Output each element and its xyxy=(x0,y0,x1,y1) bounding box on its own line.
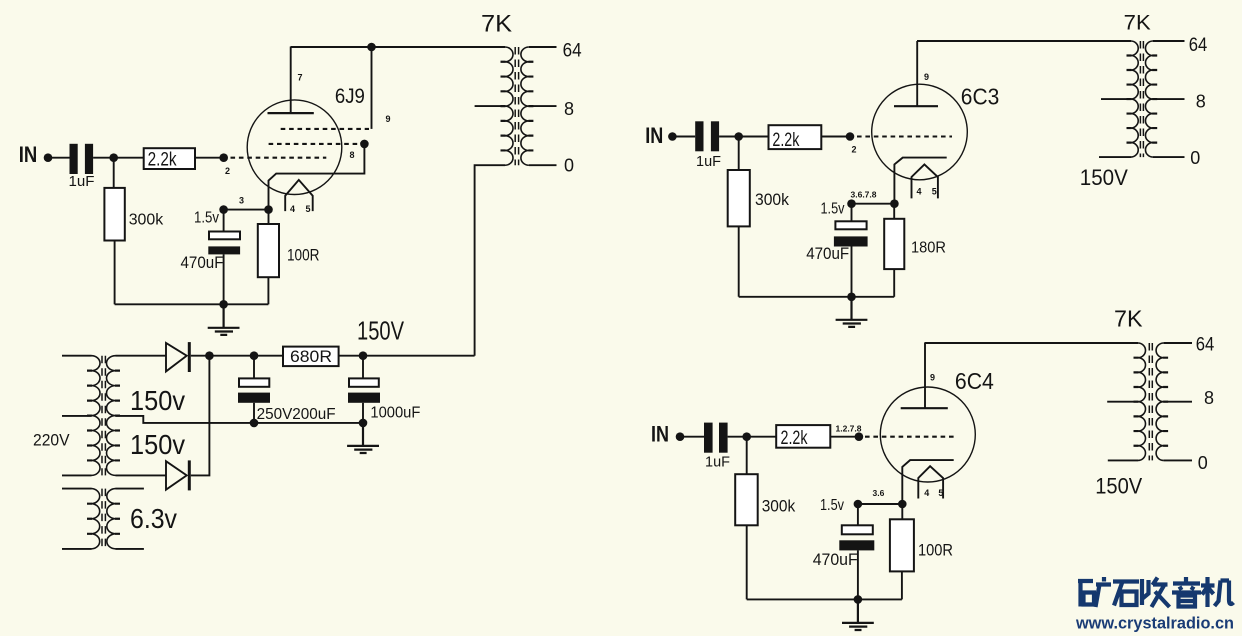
svg-text:IN: IN xyxy=(645,123,663,148)
resistor 100R (C) xyxy=(890,519,914,571)
wire bottom rail A xyxy=(115,303,269,305)
wire top xyxy=(291,46,505,48)
wire tap 8 xyxy=(529,105,557,107)
svg-text:9: 9 xyxy=(924,72,929,82)
wire xyxy=(901,504,903,519)
node gnd1 xyxy=(250,419,259,428)
wire tap 0 xyxy=(529,164,557,166)
wire dashed grid (B) xyxy=(857,135,952,137)
wire grid3 dashed xyxy=(281,128,369,130)
wire plate lead xyxy=(916,41,918,106)
wire tap 64 (T2) xyxy=(1153,40,1185,42)
capacitor 250V200uF xyxy=(239,378,269,386)
svg-text:7: 7 xyxy=(298,73,303,83)
tube 6C3 envelope xyxy=(872,84,968,180)
wire dashed grid1 xyxy=(231,157,327,159)
wire T2 primary bottom xyxy=(1099,156,1131,158)
tube 6J9 envelope xyxy=(247,100,342,195)
node B-gnd xyxy=(847,293,856,302)
wire xyxy=(893,204,895,219)
wire cap2 top lead xyxy=(362,356,364,379)
resistor 300k (C) xyxy=(735,474,758,525)
svg-text:IN: IN xyxy=(19,142,38,167)
svg-text:7K: 7K xyxy=(1114,306,1143,332)
watermark logo shou xyxy=(1142,578,1170,608)
svg-text:2.2k: 2.2k xyxy=(781,428,808,449)
wire T1 primary bottom to B+ xyxy=(475,165,505,356)
node C-in xyxy=(676,432,685,441)
svg-text:680R: 680R xyxy=(290,347,332,366)
svg-text:2.2k: 2.2k xyxy=(148,150,177,171)
wire cap lead xyxy=(223,210,225,232)
diode D2 cathode bar xyxy=(188,460,191,490)
wire secondary top xyxy=(116,355,167,357)
transformer T2 secondary winding xyxy=(1145,41,1152,157)
svg-text:IN: IN xyxy=(651,422,669,447)
node A-in xyxy=(44,153,53,162)
svg-text:0: 0 xyxy=(1190,148,1200,168)
wire cap2 bottom lead xyxy=(362,403,364,423)
capacitor C 1uF (B) xyxy=(695,121,703,151)
wire xyxy=(830,436,855,438)
node C1 xyxy=(742,432,751,441)
6.3v winding core xyxy=(102,489,105,549)
svg-text:8: 8 xyxy=(1204,388,1214,408)
svg-text:5: 5 xyxy=(932,187,937,197)
svg-text:2: 2 xyxy=(225,166,230,176)
svg-text:100R: 100R xyxy=(918,540,953,559)
6.3v winding left xyxy=(92,489,100,549)
wire xyxy=(267,277,269,304)
node 3 (A cathode row) xyxy=(219,205,228,214)
node 8 xyxy=(360,140,369,149)
resistor 300k (A) xyxy=(104,188,124,241)
6.3v winding right xyxy=(107,489,116,549)
node B+3 xyxy=(359,351,368,360)
diode D2 xyxy=(166,461,187,490)
node C-k1 xyxy=(854,500,863,509)
svg-text:8: 8 xyxy=(1196,92,1206,112)
svg-text:300k: 300k xyxy=(129,212,164,229)
transformer T2 primary winding xyxy=(1131,41,1138,157)
wire xyxy=(93,157,144,159)
resistor 180R xyxy=(884,219,904,269)
node A1 xyxy=(109,153,118,162)
cathode (C) xyxy=(902,460,953,504)
svg-text:4: 4 xyxy=(917,187,922,197)
transformer T3 core xyxy=(1149,343,1152,460)
wire cap1 top lead xyxy=(253,356,255,379)
svg-text:470uF: 470uF xyxy=(181,253,224,272)
wire D2 to B+ node xyxy=(191,356,210,476)
svg-text:5: 5 xyxy=(306,204,311,214)
node 2 (A grid) xyxy=(219,153,228,162)
transformer T1 core xyxy=(515,47,518,165)
wire grid2 dashed xyxy=(269,143,359,145)
svg-text:470uF: 470uF xyxy=(806,244,849,263)
wire xyxy=(893,269,895,297)
heater filament (A) xyxy=(285,180,313,211)
wire xyxy=(113,158,115,188)
svg-text:1.5v: 1.5v xyxy=(194,210,219,227)
svg-text:180R: 180R xyxy=(911,240,946,257)
diode D1 cathode bar xyxy=(188,342,191,372)
wire tap 8 (T2) xyxy=(1153,98,1185,100)
wire xyxy=(738,137,740,171)
svg-text:300k: 300k xyxy=(762,497,796,516)
node A-k xyxy=(264,205,273,214)
transformer T3 secondary winding xyxy=(1156,343,1164,460)
capacitor 1000uF xyxy=(349,378,379,386)
wire xyxy=(858,503,902,505)
svg-text:9: 9 xyxy=(386,114,391,124)
wire T1 left mid stub xyxy=(475,105,505,107)
svg-text:64: 64 xyxy=(563,41,582,62)
wire tap 8 (T3) xyxy=(1164,401,1192,403)
svg-text:6J9: 6J9 xyxy=(335,84,365,108)
svg-text:64: 64 xyxy=(1196,334,1215,355)
svg-text:0: 0 xyxy=(564,155,574,175)
node B-in xyxy=(668,132,677,141)
wire xyxy=(672,136,695,138)
svg-text:1uF: 1uF xyxy=(705,454,730,471)
wire xyxy=(680,436,704,438)
svg-text:1000uF: 1000uF xyxy=(370,405,420,422)
svg-text:4: 4 xyxy=(290,204,295,214)
transformer T1 secondary winding xyxy=(521,47,529,165)
tube 6C4 envelope xyxy=(880,387,975,482)
resistor 2.2k (B) xyxy=(769,125,822,149)
wire T2 left mid stub xyxy=(1101,98,1131,100)
wire primary mid stub xyxy=(62,415,92,417)
wire tap 64 xyxy=(529,46,557,48)
wire xyxy=(268,210,270,224)
wire top (B) xyxy=(917,40,1131,42)
svg-text:150v: 150v xyxy=(130,429,185,460)
wire secondary bottom xyxy=(116,474,167,476)
wire dashed grid (C) xyxy=(865,436,957,438)
resistor 300k (B) xyxy=(728,170,750,226)
wire xyxy=(719,136,768,138)
node 2 (C grid) xyxy=(855,432,864,441)
ground (A) xyxy=(208,304,240,335)
svg-text:7K: 7K xyxy=(481,10,512,37)
wire 6.3v stubs right xyxy=(116,489,144,549)
power transformer core xyxy=(102,356,105,476)
wire plate lead xyxy=(290,47,292,114)
wire tap 0 (T3) xyxy=(1164,459,1192,461)
transformer T2 core xyxy=(1140,41,1143,157)
wire primary bottom stub xyxy=(62,474,92,476)
wire xyxy=(114,241,116,305)
wire bottom rail B xyxy=(739,296,895,298)
wire xyxy=(746,437,748,475)
svg-text:1uF: 1uF xyxy=(69,173,95,190)
wire ground rail from center tap xyxy=(116,416,364,423)
node B-k2 xyxy=(890,199,899,208)
svg-text:6C3: 6C3 xyxy=(961,83,1000,109)
wire xyxy=(48,157,70,159)
wire xyxy=(191,355,283,357)
wire xyxy=(746,525,748,599)
wire cap lead (C) xyxy=(857,504,859,525)
svg-text:3.6: 3.6 xyxy=(873,488,885,498)
watermark logo yin xyxy=(1172,577,1201,607)
svg-text:1uF: 1uF xyxy=(696,153,721,170)
wire xyxy=(851,247,853,297)
plate (B) xyxy=(894,105,938,107)
power transformer primary winding 220V xyxy=(92,356,101,476)
capacitor C 1uF (C) xyxy=(704,423,713,453)
svg-text:5: 5 xyxy=(938,488,943,498)
watermark logo shi xyxy=(1113,582,1139,606)
svg-text:2.2k: 2.2k xyxy=(772,130,799,151)
wire xyxy=(901,571,903,599)
wire xyxy=(195,157,220,159)
wire T3 primary bottom xyxy=(1108,459,1138,461)
capacitor 470uF (A) xyxy=(209,232,240,240)
watermark logo ji xyxy=(1201,577,1234,607)
node C-k2 xyxy=(898,500,907,509)
svg-text:9: 9 xyxy=(930,373,935,383)
capacitor 470uF (C) xyxy=(842,525,873,534)
svg-text:150V: 150V xyxy=(357,316,404,346)
svg-text:100R: 100R xyxy=(287,246,320,265)
svg-text:www.crystalradio.cn: www.crystalradio.cn xyxy=(1075,614,1234,633)
svg-text:300k: 300k xyxy=(755,190,789,209)
ground (PS) xyxy=(347,423,379,453)
ground (B) xyxy=(836,297,868,327)
wire grid3 to top xyxy=(371,47,373,129)
wire xyxy=(821,136,846,138)
transformer T3 primary winding xyxy=(1138,343,1146,460)
svg-text:470uF: 470uF xyxy=(813,550,858,569)
heater filament (C) xyxy=(918,466,943,498)
svg-text:2: 2 xyxy=(852,145,857,155)
wire xyxy=(223,254,225,304)
wire primary top stub xyxy=(62,355,92,357)
wire xyxy=(738,226,740,296)
svg-text:7K: 7K xyxy=(1124,11,1152,35)
svg-text:0: 0 xyxy=(1198,453,1208,473)
resistor 100R (A) xyxy=(258,224,279,277)
wire xyxy=(224,209,269,211)
capacitor 470uF (B) xyxy=(835,221,866,229)
node C-gnd xyxy=(854,595,863,604)
svg-text:150V: 150V xyxy=(1080,165,1128,190)
node A-gnd xyxy=(219,300,228,309)
svg-text:8: 8 xyxy=(350,150,355,160)
transformer T1 primary winding xyxy=(505,47,513,165)
resistor 2.2k (C) xyxy=(776,425,830,448)
watermark logo kuang xyxy=(1078,577,1234,607)
node B1 xyxy=(734,132,743,141)
wire 680R to riser xyxy=(339,355,475,357)
wire T3 left mid stub xyxy=(1107,401,1138,403)
capacitor C 1uF (A) xyxy=(70,144,78,174)
resistor 2.2k (A) xyxy=(144,148,195,169)
svg-text:6C4: 6C4 xyxy=(955,368,994,394)
node gnd2 xyxy=(359,419,368,428)
wire xyxy=(852,203,895,205)
wire top (C) xyxy=(924,342,1138,344)
svg-text:1.2.7.8: 1.2.7.8 xyxy=(836,424,862,434)
svg-text:8: 8 xyxy=(564,99,574,119)
diode D1 xyxy=(166,343,187,372)
svg-text:3.6.7.8: 3.6.7.8 xyxy=(851,190,877,200)
svg-text:64: 64 xyxy=(1189,35,1208,56)
svg-text:1.5v: 1.5v xyxy=(821,201,845,218)
plate (C) xyxy=(901,407,948,409)
cathode (B) xyxy=(894,158,946,204)
wire node8 to cathode xyxy=(269,144,365,210)
wire 6.3v stubs left xyxy=(62,489,92,549)
wire tap 0 (T2) xyxy=(1153,156,1185,158)
node B+1 xyxy=(205,351,214,360)
node A-top xyxy=(367,43,376,52)
svg-text:220V: 220V xyxy=(33,431,70,450)
svg-text:250V200uF: 250V200uF xyxy=(257,406,336,423)
node B-k1 xyxy=(847,199,856,208)
plate (A) xyxy=(268,112,314,114)
node B+2 xyxy=(250,351,259,360)
wire tap 64 (T3) xyxy=(1164,342,1192,344)
wire xyxy=(728,436,777,438)
wire cap lead (B) xyxy=(851,204,853,222)
wire xyxy=(857,550,859,599)
ground (C) xyxy=(842,599,874,630)
svg-text:150V: 150V xyxy=(1095,473,1142,498)
svg-text:1.5v: 1.5v xyxy=(820,497,844,514)
power transformer secondary winding xyxy=(107,356,116,476)
svg-text:4: 4 xyxy=(924,488,929,498)
heater filament (B) xyxy=(912,164,938,198)
node 2 (B grid) xyxy=(846,132,855,141)
resistor 680R xyxy=(283,347,339,367)
wire plate lead xyxy=(924,343,926,408)
svg-text:150v: 150v xyxy=(130,385,185,416)
svg-text:3: 3 xyxy=(239,196,244,206)
wire cap1 bottom lead xyxy=(253,403,255,423)
wire bottom rail C xyxy=(747,598,902,600)
svg-text:6.3v: 6.3v xyxy=(130,503,177,534)
